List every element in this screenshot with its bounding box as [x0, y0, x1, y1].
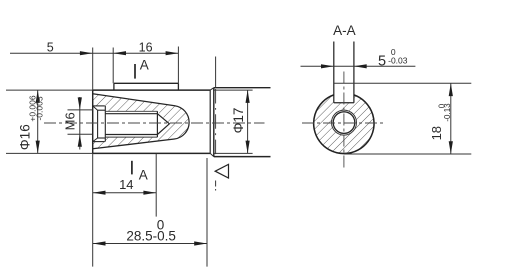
svg-text:Φ17: Φ17 [231, 108, 246, 134]
taper symbol triangle [215, 164, 228, 178]
svg-text:-0.005: -0.005 [34, 96, 44, 120]
svg-text:0: 0 [157, 218, 165, 233]
svg-text:18: 18 [429, 126, 444, 140]
axis centerline [44, 122, 265, 124]
hatching inside circle [314, 93, 374, 153]
dim M6 extension lines [68, 109, 93, 111]
witness dash-dot below triangle [215, 181, 217, 192]
arrow tip at face [80, 51, 93, 55]
svg-text:-0.03: -0.03 [388, 55, 408, 65]
arrow tip at key end [166, 51, 179, 55]
drill point cone [157, 114, 169, 135]
dim line 5 and 16 [10, 52, 178, 54]
keyway floor [334, 102, 354, 104]
broken-out section boundary [93, 94, 189, 149]
dim phi17 line [247, 90, 249, 153]
shaft top edge [93, 89, 211, 91]
dim phi16 line [37, 90, 39, 153]
dim 14 line [93, 192, 157, 194]
outer circle with slot gap [314, 95, 374, 154]
A-A vertical centerline [343, 72, 345, 171]
svg-text:16: 16 [139, 40, 153, 54]
white thread hole [332, 110, 357, 135]
section mark A bottom [132, 161, 148, 183]
svg-text:Φ16: Φ16 [18, 124, 33, 150]
svg-text:5: 5 [47, 40, 54, 54]
dim 28.5 line [93, 243, 207, 245]
A-A horizontal centerline [302, 122, 385, 124]
dim M6 line with outside arrows [79, 97, 81, 150]
shaft bottom edge [93, 152, 211, 154]
dim phi16 extension lines [6, 89, 93, 91]
keyway slot sides [333, 42, 335, 103]
thread circle thin [332, 110, 357, 135]
hole circle thick [333, 112, 355, 134]
M6 drill core thick lines [105, 114, 157, 135]
svg-text:A: A [139, 168, 148, 183]
section mark A top [135, 58, 149, 79]
svg-text:A-A: A-A [333, 23, 356, 38]
dim 18 line [450, 83, 452, 154]
hub body top edge [214, 87, 271, 89]
white keyway slot [334, 84, 354, 103]
M6 thread major thin lines [105, 111, 157, 137]
shaft left end face [92, 90, 94, 153]
M6 hole entrance counterbore [93, 106, 106, 142]
svg-text:-0.13: -0.13 [443, 103, 452, 122]
svg-text:14: 14 [119, 177, 133, 192]
key 5x5x16 on top [114, 83, 178, 90]
hub body bottom edge [214, 156, 271, 158]
dim 5 (A-A) line [301, 65, 416, 67]
dim phi17 extension lines [213, 89, 253, 91]
shoulder step [210, 88, 214, 157]
svg-text:28.5-0.5: 28.5-0.5 [126, 229, 176, 244]
broken-out section hatching (spline bullet region) [92, 94, 189, 149]
svg-text:5: 5 [378, 54, 386, 70]
thread end line [156, 111, 158, 137]
svg-text:A: A [140, 58, 149, 73]
step witness dash-dot through body [215, 89, 217, 157]
arrow tip at key start [113, 51, 126, 55]
dim 28.5 right extension [206, 158, 208, 267]
extension lines up [92, 48, 94, 91]
step witness line upper [215, 57, 217, 88]
dim 14 extension lines [92, 153, 94, 266]
dim 18 extension lines [334, 82, 472, 84]
svg-text:M6: M6 [63, 112, 78, 130]
